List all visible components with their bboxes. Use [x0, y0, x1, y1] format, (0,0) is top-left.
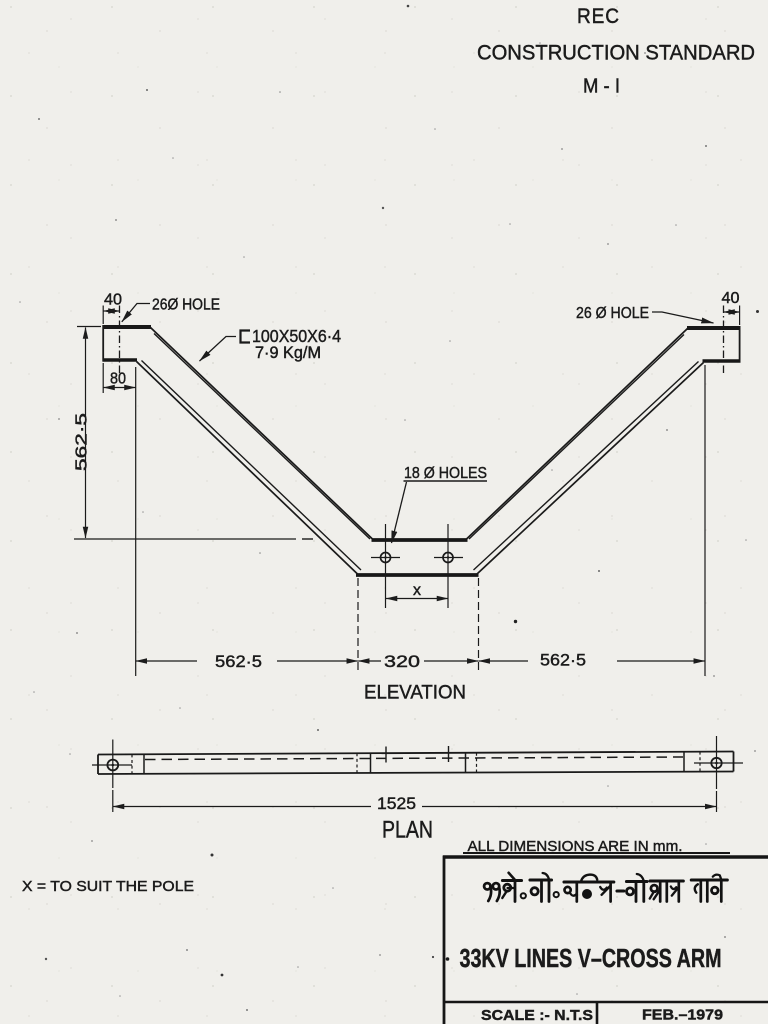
svg-text:40: 40 [722, 290, 740, 307]
bottom dim 320: line seg b [424, 660, 478, 662]
plan right cap solid line [683, 752, 685, 772]
lower slant left outer [137, 362, 358, 575]
PLAN-DRAWING [92, 736, 743, 844]
lower slant right inner [474, 362, 699, 571]
upper slant right outer [466, 329, 688, 540]
bottom dim: extension at 358 (dashed) [357, 578, 359, 672]
bottom flange left (thick) [103, 358, 138, 362]
dim 1525: line seg b [422, 806, 716, 808]
right end vertical edge [739, 326, 741, 363]
lower slant left inner [142, 361, 362, 571]
svg-text:562·5: 562·5 [540, 651, 586, 670]
hindi word vee [530, 878, 552, 881]
svg-text:CONSTRUCTION STANDARD: CONSTRUCTION STANDARD [477, 41, 755, 65]
dim 1525: left extension [112, 790, 114, 812]
plan bar bottom edge [98, 772, 734, 775]
baseline reference dash [302, 538, 313, 540]
label channel section: bracket symbol [241, 331, 251, 343]
svg-text:562·5: 562·5 [74, 413, 91, 471]
hindi word ke [503, 879, 522, 882]
hindi word 11 [484, 883, 490, 889]
svg-text:X = TO SUIT THE POLE: X = TO SUIT THE POLE [22, 878, 194, 895]
svg-text:1525: 1525 [377, 794, 416, 813]
plan center section solid line right [465, 753, 467, 773]
bottom dim 562.5 right: line seg a [479, 660, 528, 662]
hole left cross ticks [371, 557, 400, 559]
HEADER-TEXTS [477, 5, 755, 98]
plan end hole right centerlines [716, 736, 718, 789]
svg-text:33KV LINES V–CROSS ARM: 33KV LINES V–CROSS ARM [460, 943, 722, 973]
plan end hole right [711, 758, 721, 768]
dim 40 left: extension tick [102, 306, 104, 325]
bottom flange right (thick) [703, 359, 741, 363]
hindi title text (drawn strokes) [484, 873, 727, 902]
svg-text:REC: REC [577, 5, 620, 28]
dim 40 right: extension tick [739, 306, 741, 326]
plan right cap dashed line [699, 752, 701, 772]
label channel section: leader [200, 337, 237, 362]
label 18dia HOLES: underline [404, 480, 488, 482]
ELEVATION-DRAWING [103, 306, 741, 609]
svg-text:18 Ø HOLES: 18 Ø HOLES [404, 465, 487, 482]
upper slant left outer [151, 328, 374, 540]
plan centerline dashed [145, 757, 683, 760]
hindi word aarm [691, 878, 727, 881]
svg-text:40: 40 [104, 292, 122, 309]
svg-text:100X50X6·4: 100X50X6·4 [252, 326, 341, 346]
left end vertical edge [102, 325, 104, 362]
bottom dim: extension at 705 [704, 365, 706, 676]
bottom dim 320: line seg a [358, 660, 381, 662]
dim 80: right extension (long, shared with bottom dim) [135, 367, 137, 676]
plan bar left end [97, 755, 99, 775]
dim 562.5 vertical: top extension line [77, 326, 101, 328]
dim 562.5 vertical: dimension line [85, 328, 87, 539]
svg-text:26Ø HOLE: 26Ø HOLE [152, 297, 220, 314]
plan center section dashed line left [356, 753, 358, 773]
plan bolt hole tick right [448, 746, 450, 762]
dim 40 left: dimension line with arrows [104, 310, 120, 312]
bullet dot before 33KV [446, 957, 450, 961]
dim x: dimension line [386, 598, 448, 600]
svg-text:7·9 Kg/M: 7·9 Kg/M [255, 344, 321, 362]
svg-text:26 Ø HOLE: 26 Ø HOLE [576, 305, 649, 322]
svg-text:SCALE :- N.T.S: SCALE :- N.T.S [481, 1007, 593, 1024]
hole centerline left end (dash-dot) [119, 306, 121, 374]
plan center section solid line left [370, 753, 372, 773]
ELEVATION-DIMS [74, 290, 740, 704]
title box column divider [596, 1002, 599, 1024]
dim 1525: line seg a [113, 806, 371, 808]
dim 1525: right extension [716, 791, 718, 812]
upper slant right inner [469, 335, 684, 540]
label 18dia HOLES: leader [392, 482, 407, 543]
bolt hole right in web [443, 553, 453, 563]
hindi word kraas [650, 879, 683, 882]
dim 80: left extension [102, 363, 104, 393]
title box row divider [443, 1001, 768, 1004]
dim 80: dimension line [104, 387, 136, 389]
plan left cap solid line [143, 754, 145, 774]
plan center section dashed line right [476, 753, 478, 773]
dim 40 right: dimension line with arrows [724, 311, 740, 313]
svg-text:FEB.–1979: FEB.–1979 [642, 1007, 723, 1024]
hole right vertical centerline [447, 524, 449, 608]
plan end hole left centerlines [112, 740, 114, 789]
hindi word laain [564, 880, 614, 883]
hole centerline right end (dash-dot) [723, 306, 725, 374]
hindi hyphen [617, 889, 624, 892]
plan end hole left [107, 760, 118, 771]
bolt hole left in web [381, 553, 391, 563]
center bottom line (thick) [356, 573, 479, 577]
svg-text:ELEVATION: ELEVATION [364, 682, 466, 704]
hole right cross ticks [434, 557, 463, 559]
hole left vertical centerline [385, 524, 387, 608]
svg-text:320: 320 [384, 652, 420, 671]
svg-text:PLAN: PLAN [382, 817, 433, 844]
title box left border [443, 856, 446, 1024]
hindi word vee2 [627, 880, 648, 883]
bottom dim 562.5 left: line seg a [136, 660, 197, 662]
svg-text:80: 80 [110, 371, 126, 388]
bottom dim 562.5 right: line seg b [617, 660, 705, 662]
label 26dia HOLE right: leader [652, 312, 714, 323]
label 26dia HOLE left: leader [122, 304, 150, 322]
plan bar right end [733, 752, 735, 772]
svg-text:x: x [413, 582, 421, 599]
TITLE-BLOCK [22, 838, 768, 1024]
top flange left (thick) [103, 325, 152, 329]
plan bar top edge [98, 752, 734, 755]
bottom dim: extension at 479 (dashed) [478, 578, 480, 672]
note underline [463, 852, 730, 854]
baseline reference at V bottom level [74, 538, 296, 540]
plan bolt hole tick left [385, 747, 387, 763]
plan left cap dashed line [131, 754, 133, 774]
top flange right (thick) [687, 326, 741, 330]
center web top line (thick) [372, 538, 468, 542]
upper slant left inner [154, 334, 370, 540]
svg-text:M - I: M - I [583, 76, 620, 98]
title box top border [443, 855, 768, 858]
svg-text:562·5: 562·5 [215, 652, 262, 671]
bottom dim 562.5 left: line seg b [277, 660, 358, 662]
lower slant right outer [477, 363, 704, 575]
